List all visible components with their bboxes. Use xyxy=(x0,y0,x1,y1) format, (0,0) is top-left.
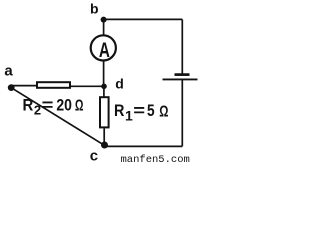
resistor R1 xyxy=(100,97,109,127)
wire R1 down to node c xyxy=(103,128,105,146)
svg-text:5: 5 xyxy=(147,101,155,120)
wire R2 to node d xyxy=(71,85,104,87)
wire node a to resistor R2 xyxy=(11,85,36,87)
value label R1 = 5 ohm xyxy=(114,101,169,124)
node a xyxy=(8,84,15,91)
node c xyxy=(101,142,108,149)
battery cell (long plate) xyxy=(163,78,198,80)
svg-text:Ω: Ω xyxy=(75,97,84,114)
diagonal wire node a to node c xyxy=(11,88,104,146)
value label R2 = 20 ohm xyxy=(23,95,84,117)
svg-text:a: a xyxy=(4,63,13,80)
svg-text:=: = xyxy=(133,101,145,120)
svg-text:2: 2 xyxy=(34,102,41,117)
node b xyxy=(101,17,107,23)
wire node b down to ammeter xyxy=(103,20,105,36)
svg-text:d: d xyxy=(115,76,124,92)
svg-text:R: R xyxy=(114,101,124,120)
resistor R2 xyxy=(37,82,70,88)
svg-text:manfen5.com: manfen5.com xyxy=(121,154,190,164)
svg-text:b: b xyxy=(90,0,99,16)
svg-text:R: R xyxy=(23,96,34,115)
ammeter A xyxy=(91,35,116,62)
svg-text:A: A xyxy=(99,39,110,62)
wire node d down to resistor R1 xyxy=(103,86,105,96)
wire b to top-right corner xyxy=(104,18,183,20)
svg-text:1: 1 xyxy=(125,108,133,124)
svg-text:c: c xyxy=(90,147,98,164)
wire battery down to bottom-right corner xyxy=(181,79,183,146)
wire bottom-right corner to node c xyxy=(104,145,182,147)
svg-text:Ω: Ω xyxy=(159,104,168,121)
wire right side down to battery xyxy=(181,19,183,74)
svg-text:=: = xyxy=(42,96,54,115)
battery cell (short plate) xyxy=(175,73,190,76)
node d xyxy=(101,84,107,90)
svg-text:20: 20 xyxy=(56,95,72,114)
wire ammeter down to node d xyxy=(103,61,105,87)
